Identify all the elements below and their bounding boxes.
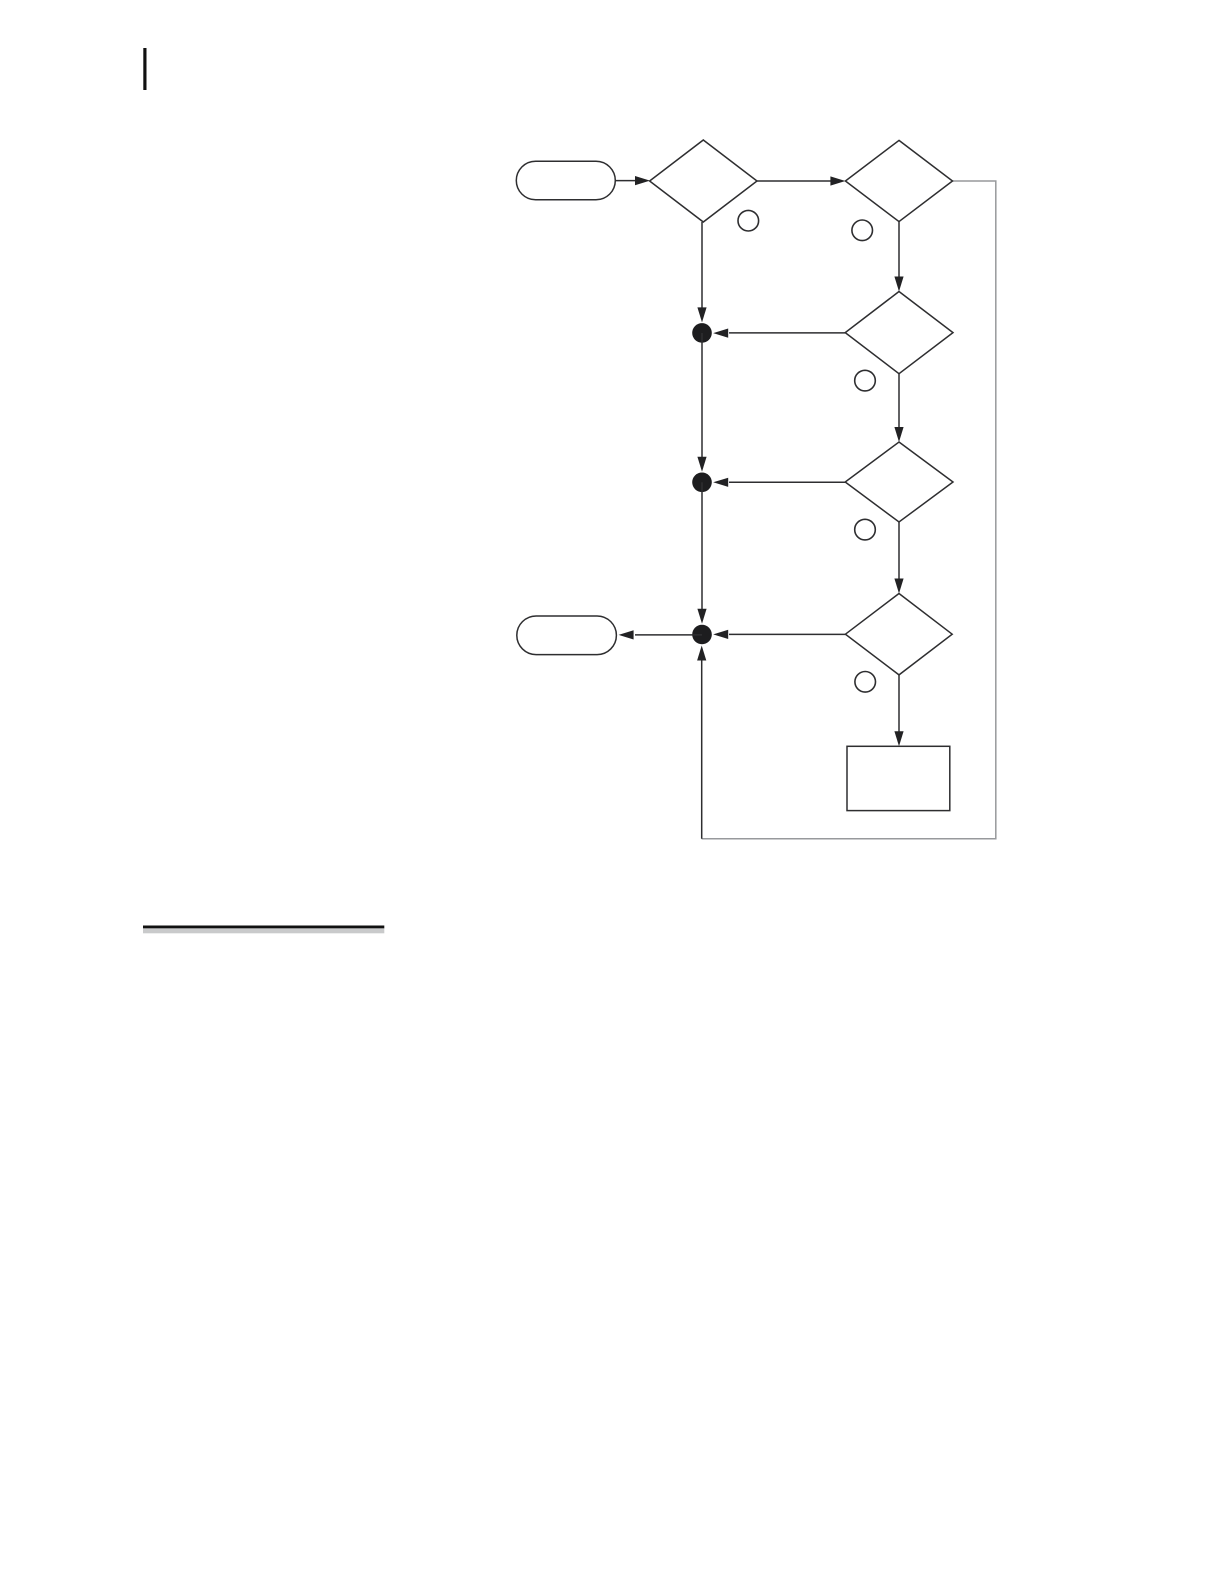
- wire D5 to dot J3: [713, 630, 845, 639]
- wire dot J1 down to dot J2: [697, 333, 706, 472]
- wire D4 down to D5: [894, 522, 903, 594]
- process box: [847, 746, 950, 810]
- change bar: [143, 48, 146, 90]
- heading rule black: [143, 926, 384, 929]
- wire start to D1: [616, 176, 650, 185]
- wire rail up into dot J3: [697, 646, 706, 839]
- junction dot J1: [692, 323, 712, 343]
- loop rail wire (D2 right corner, down right side, along bottom): [702, 181, 996, 839]
- wire D4 to dot J2: [713, 478, 845, 487]
- wire D3 down to D4: [894, 374, 903, 442]
- junction dot J3: [692, 625, 712, 645]
- end terminator: [517, 616, 617, 655]
- heading rule gray: [143, 928, 384, 933]
- decision D1: [650, 140, 757, 222]
- wire D1 down to dot J1: [697, 222, 706, 322]
- wire D1 to D2: [757, 176, 845, 185]
- annotation circle 4: [855, 519, 876, 540]
- wire D5 down to process box: [894, 675, 903, 746]
- wire D2 down to D3: [894, 222, 903, 292]
- wire dot J3 to end terminator: [619, 630, 702, 639]
- decision D3: [845, 292, 953, 374]
- wire D3 to dot J1: [713, 329, 845, 338]
- decision D5: [845, 594, 952, 675]
- annotation circle 3: [855, 370, 876, 391]
- start terminator: [516, 161, 615, 200]
- annotation circle 1: [738, 210, 759, 231]
- wire dot J2 down to dot J3: [697, 482, 706, 624]
- junction dot J2: [692, 473, 712, 493]
- annotation circle 2: [852, 220, 873, 241]
- decision D2: [845, 140, 952, 221]
- decision D4: [845, 442, 953, 522]
- annotation circle 5: [855, 672, 876, 693]
